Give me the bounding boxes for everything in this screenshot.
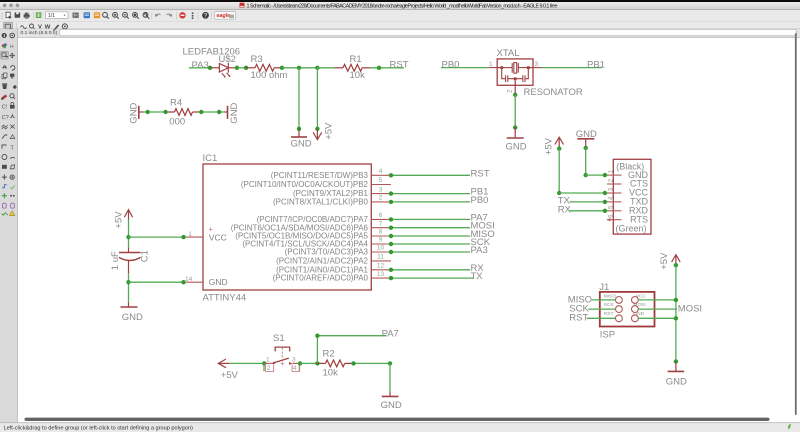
svg-text:10: 10 bbox=[377, 245, 385, 252]
pin 2 CTS bbox=[607, 183, 622, 185]
svg-text:6: 6 bbox=[379, 212, 383, 219]
ground bbox=[506, 128, 527, 153]
junction bbox=[389, 191, 393, 195]
svg-text:GND: GND bbox=[129, 102, 140, 123]
svg-text:T: T bbox=[10, 145, 14, 151]
horizontal scrollbar bbox=[25, 418, 770, 421]
wire GND pad to rail bbox=[638, 317, 676, 319]
svg-text:Left-click&drag to define grou: Left-click&drag to define group (or left… bbox=[4, 425, 193, 431]
wire GND to R4 bbox=[144, 111, 169, 113]
svg-text:i+: i+ bbox=[10, 44, 14, 50]
svg-text:PB0: PB0 bbox=[471, 195, 489, 206]
wire PA3 to LED bbox=[189, 67, 210, 69]
pin 8 PA5 bbox=[371, 235, 391, 237]
pin 9 PA4 bbox=[371, 243, 391, 245]
svg-text:3: 3 bbox=[535, 61, 539, 68]
wire RX bbox=[391, 269, 470, 271]
junction bbox=[280, 66, 284, 70]
wire LED to R3 bbox=[237, 67, 246, 69]
wire +5V rail down to GND symbol bbox=[675, 265, 677, 361]
svg-text:XTAL: XTAL bbox=[497, 48, 520, 59]
wire PB1 bbox=[391, 193, 470, 195]
wire +5V to S1 bbox=[229, 362, 264, 364]
wire R3 to node bbox=[282, 67, 317, 69]
pin 11 PA2 bbox=[371, 260, 391, 262]
junction at LED anode bbox=[208, 66, 212, 70]
svg-text:4: 4 bbox=[293, 365, 297, 372]
wire down to +5V bbox=[316, 68, 318, 129]
wire cap to GND rail bbox=[128, 273, 130, 302]
junction bbox=[389, 173, 393, 177]
pin 3 PB1 bbox=[371, 193, 391, 195]
wire MOSI pad to label bbox=[638, 308, 677, 310]
wire TX to TXD bbox=[570, 201, 605, 203]
svg-text:+5V: +5V bbox=[221, 370, 239, 381]
svg-text:R2: R2 bbox=[323, 349, 335, 360]
wire MISO to pad bbox=[592, 299, 616, 301]
pad RST bbox=[616, 315, 623, 322]
ground bbox=[291, 129, 312, 150]
svg-text:GND: GND bbox=[666, 377, 687, 388]
junction bbox=[217, 110, 221, 114]
junction bbox=[389, 226, 393, 230]
junction at pin 1 bbox=[181, 235, 185, 239]
svg-text:eagle: eagle bbox=[217, 13, 231, 19]
svg-text:S1: S1 bbox=[273, 333, 285, 344]
junction bbox=[557, 146, 561, 150]
svg-text:1/1: 1/1 bbox=[48, 13, 55, 19]
ground (below C1) bbox=[121, 303, 144, 323]
svg-text:PA3: PA3 bbox=[471, 245, 488, 256]
svg-text:R1: R1 bbox=[350, 54, 362, 65]
svg-text:U$2: U$2 bbox=[219, 54, 236, 65]
ground (above FTDI, inverted) bbox=[576, 129, 597, 148]
svg-text:+5V: +5V bbox=[114, 211, 125, 229]
svg-text:1: 1 bbox=[188, 231, 192, 238]
svg-text:GND: GND bbox=[229, 102, 240, 123]
pin 12 PA1 bbox=[371, 269, 391, 271]
junction node +5V branch bbox=[315, 66, 319, 70]
pad SCK bbox=[616, 306, 623, 313]
svg-text:10k: 10k bbox=[323, 368, 339, 379]
pad MOSI bbox=[632, 306, 639, 313]
svg-text:VCC: VCC bbox=[636, 294, 647, 300]
wire GND down bbox=[585, 148, 587, 175]
svg-text:1 Schematic - /Users/steam228/: 1 Schematic - /Users/steam228/Documents/… bbox=[247, 4, 558, 10]
ground (right of R4, rotated) bbox=[224, 102, 241, 123]
wire PB0 bbox=[391, 201, 470, 203]
pin 10 PA3 bbox=[371, 251, 391, 253]
svg-text:C!: C! bbox=[2, 105, 8, 111]
junction GND tap bbox=[126, 280, 130, 284]
junction bbox=[513, 93, 517, 97]
junction VCC tap bbox=[126, 235, 130, 239]
junction bbox=[674, 316, 678, 320]
toolbar zoom + misc icons bbox=[103, 12, 173, 18]
junction bbox=[603, 191, 607, 195]
svg-text:C?: C? bbox=[2, 115, 9, 121]
junction bbox=[603, 200, 607, 204]
svg-text:2: 2 bbox=[507, 89, 514, 93]
svg-text:ISP: ISP bbox=[600, 330, 615, 341]
junction bbox=[298, 361, 302, 365]
svg-text:GND: GND bbox=[381, 400, 402, 411]
svg-text:(PCINT8/XTAL1/CLKI)PB0: (PCINT8/XTAL1/CLKI)PB0 bbox=[273, 198, 369, 207]
svg-text:2: 2 bbox=[379, 195, 383, 202]
pin 5 PB2 bbox=[371, 184, 391, 186]
supply +5V (left arrow at S1) bbox=[218, 359, 229, 368]
resistor R4 000 bbox=[168, 109, 199, 116]
junction bbox=[199, 110, 203, 114]
svg-text:MOSI: MOSI bbox=[678, 304, 702, 315]
svg-text:RST: RST bbox=[471, 168, 490, 179]
svg-text:2: 2 bbox=[267, 365, 271, 372]
pin 2 PB0 bbox=[371, 201, 391, 203]
wire down to GND bbox=[298, 68, 300, 129]
svg-text:SCK: SCK bbox=[604, 302, 615, 308]
switch S1 bbox=[264, 333, 300, 372]
junction bbox=[389, 242, 393, 246]
svg-text:(PCINT2/AIN1/ADC2)PA2: (PCINT2/AIN1/ADC2)PA2 bbox=[276, 257, 368, 266]
pin 4 PB3 bbox=[371, 174, 391, 176]
svg-text:GND: GND bbox=[122, 312, 143, 323]
svg-text:0.1 inch (6.5 0.9): 0.1 inch (6.5 0.9) bbox=[21, 30, 58, 36]
wire +5V down bbox=[558, 149, 560, 193]
junction at pin 14 bbox=[181, 280, 185, 284]
junction bbox=[389, 268, 393, 272]
svg-text:100 ohm: 100 ohm bbox=[251, 70, 288, 81]
svg-text:+5V: +5V bbox=[543, 137, 554, 155]
wire SCK to pad bbox=[588, 308, 615, 310]
svg-text:R4: R4 bbox=[170, 97, 182, 108]
wire PA3 bbox=[391, 251, 470, 253]
pin 6 PA7 bbox=[371, 218, 391, 220]
svg-text:R3: R3 bbox=[251, 54, 263, 65]
coordinate bar bbox=[21, 29, 797, 37]
wire up and right to PA7 bbox=[317, 336, 386, 364]
wire TX bbox=[391, 277, 474, 279]
ISP header J1 bbox=[599, 282, 654, 341]
supply +5V (down arrow) bbox=[313, 129, 322, 140]
svg-text:RST: RST bbox=[604, 311, 614, 317]
svg-text:VCC: VCC bbox=[209, 232, 227, 242]
wire S1 to node bbox=[300, 362, 317, 364]
wire to VCC pin 1 bbox=[129, 236, 184, 238]
junction bbox=[389, 276, 393, 280]
junction bbox=[315, 127, 319, 131]
wire +5V rail down bbox=[128, 220, 130, 248]
junction bbox=[389, 217, 393, 221]
junction bbox=[674, 298, 678, 302]
wire to GND pin bbox=[586, 174, 605, 176]
wire to GND pin 14 bbox=[129, 281, 184, 283]
wire MOSI bbox=[391, 227, 470, 229]
junction bbox=[603, 173, 607, 177]
svg-text:GND: GND bbox=[291, 139, 312, 150]
svg-text:PA7: PA7 bbox=[382, 329, 399, 340]
svg-text:PB1: PB1 bbox=[587, 59, 605, 70]
svg-text:ATTINY44: ATTINY44 bbox=[203, 292, 247, 303]
svg-text:RTS: RTS bbox=[630, 214, 648, 224]
junction bbox=[297, 127, 301, 131]
svg-text:MISO: MISO bbox=[604, 294, 617, 300]
junction bbox=[557, 191, 561, 195]
svg-text:RX: RX bbox=[558, 204, 572, 215]
resonator XTAL bbox=[488, 59, 541, 95]
svg-text:+5V: +5V bbox=[324, 122, 335, 140]
palette icons bbox=[1, 33, 17, 216]
svg-text:GND: GND bbox=[209, 277, 228, 287]
svg-text:TX: TX bbox=[471, 271, 484, 282]
svg-text:7: 7 bbox=[379, 220, 383, 227]
svg-text:1: 1 bbox=[489, 61, 493, 68]
junction bbox=[262, 361, 266, 365]
svg-text:PA3: PA3 bbox=[192, 60, 209, 71]
svg-text:RST: RST bbox=[390, 59, 409, 70]
pin 14 GND stub bbox=[184, 281, 203, 283]
pad MISO bbox=[616, 297, 623, 304]
svg-text:GND: GND bbox=[633, 311, 644, 317]
pin 5 RXD bbox=[607, 210, 622, 212]
wire PB0 to resonator bbox=[441, 67, 488, 69]
pin 4 TXD bbox=[607, 201, 622, 203]
pin 13 PA0 bbox=[371, 277, 391, 279]
svg-text:000: 000 bbox=[169, 116, 185, 127]
svg-text:(PCINT11/RESET/DW)PB3: (PCINT11/RESET/DW)PB3 bbox=[271, 171, 369, 180]
supply +5V (FTDI) bbox=[555, 137, 564, 148]
junction bbox=[389, 200, 393, 204]
svg-text:(PCINT3/T0/ADC3)PA3: (PCINT3/T0/ADC3)PA3 bbox=[285, 248, 369, 257]
resistor R2 10k bbox=[317, 360, 352, 367]
junction bbox=[377, 66, 381, 70]
svg-text:11: 11 bbox=[377, 254, 384, 261]
svg-text:5: 5 bbox=[379, 177, 383, 184]
wire RST to pad bbox=[587, 317, 616, 319]
junction bbox=[603, 209, 607, 213]
FTDI header connector bbox=[613, 159, 651, 234]
svg-text:W: W bbox=[45, 25, 51, 31]
svg-text:PB0: PB0 bbox=[442, 59, 460, 70]
resistor R3 100 ohm bbox=[246, 64, 282, 71]
svg-text:C1: C1 bbox=[140, 250, 151, 262]
svg-text:IC1: IC1 bbox=[203, 153, 218, 164]
pad VCC bbox=[632, 297, 639, 304]
svg-text:RESONATOR: RESONATOR bbox=[524, 87, 583, 98]
wire SCK bbox=[391, 243, 470, 245]
wire R1 to RST bbox=[370, 67, 404, 69]
pin 1 VCC stub bbox=[184, 236, 203, 238]
wire down to GND bbox=[389, 363, 391, 392]
svg-text:8: 8 bbox=[379, 229, 383, 236]
junction bbox=[388, 361, 392, 365]
junction bbox=[351, 361, 355, 365]
wire VCC pad to rail bbox=[638, 299, 676, 301]
junction bbox=[146, 110, 150, 114]
junction bbox=[674, 263, 678, 267]
junction bbox=[389, 234, 393, 238]
svg-text:V: V bbox=[38, 25, 42, 31]
svg-text:12: 12 bbox=[377, 263, 385, 270]
svg-text:10k: 10k bbox=[350, 70, 366, 81]
junction bbox=[674, 359, 678, 363]
wire RX to RXD bbox=[570, 210, 605, 212]
junction bbox=[244, 66, 248, 70]
ground bbox=[381, 392, 402, 411]
pin 3 VCC bbox=[607, 192, 622, 194]
svg-text:GND: GND bbox=[506, 142, 527, 153]
pin 6 RTS bbox=[607, 214, 649, 225]
IC U1 ATTINY44 bbox=[203, 153, 372, 303]
svg-text:3: 3 bbox=[292, 357, 296, 364]
wire PB3 to RST bbox=[391, 174, 470, 176]
junction node PA7 bbox=[315, 361, 319, 365]
toolbar row 1 icons bbox=[1, 12, 100, 19]
junction LED cathode bbox=[235, 66, 239, 70]
ground (ISP) bbox=[666, 362, 687, 388]
svg-text:(PCINT0/AREF/ADC0)PA0: (PCINT0/AREF/ADC0)PA0 bbox=[273, 274, 369, 283]
svg-text:RST: RST bbox=[569, 313, 588, 324]
svg-text:(PCINT10/INT0/OC0A/CKOUT)PB2: (PCINT10/INT0/OC0A/CKOUT)PB2 bbox=[241, 180, 369, 189]
svg-text:13: 13 bbox=[377, 271, 385, 278]
vertical scrollbar bbox=[795, 33, 797, 415]
junction bbox=[389, 250, 393, 254]
wire R4 to GND bbox=[199, 111, 224, 113]
supply +5V (ISP) bbox=[672, 255, 681, 266]
wire resonator to PB1 bbox=[542, 67, 602, 69]
pin 7 PA6 bbox=[371, 227, 391, 229]
pad GND bbox=[632, 315, 639, 322]
junction node GND branch bbox=[297, 66, 301, 70]
junction bbox=[513, 125, 517, 129]
svg-text:1: 1 bbox=[266, 357, 270, 364]
resistor R1 10k bbox=[335, 64, 370, 71]
junction corner bbox=[315, 334, 319, 338]
wire PA7 bbox=[391, 218, 470, 220]
wire resonator pin2 to GND bbox=[514, 95, 516, 128]
svg-text:14: 14 bbox=[185, 276, 193, 283]
wire MISO bbox=[391, 235, 470, 237]
junction bbox=[163, 110, 167, 114]
svg-text:4: 4 bbox=[379, 168, 383, 175]
supply +5V (left of IC) bbox=[124, 210, 132, 220]
toolbar row 2 icons bbox=[4, 23, 68, 32]
LED U$2 bbox=[210, 63, 237, 78]
wire R2 to GND branch bbox=[353, 362, 391, 364]
junction bbox=[584, 173, 588, 177]
left tool palette bbox=[0, 29, 17, 423]
svg-text:?: ? bbox=[204, 13, 208, 20]
svg-text:+5V: +5V bbox=[659, 252, 670, 270]
junction bbox=[584, 146, 588, 150]
ground (left of R4, rotated) bbox=[129, 102, 144, 123]
wire node to R1 bbox=[317, 67, 335, 69]
wire to VCC pin bbox=[559, 192, 605, 194]
svg-text:3: 3 bbox=[379, 186, 383, 193]
svg-text:(Green): (Green) bbox=[616, 224, 647, 234]
svg-text:1 uF: 1 uF bbox=[110, 251, 121, 270]
svg-text:9: 9 bbox=[379, 237, 383, 244]
pin 1 GND bbox=[607, 174, 622, 176]
status bar bbox=[0, 423, 800, 432]
capacitor C1 1uF bbox=[119, 248, 141, 274]
